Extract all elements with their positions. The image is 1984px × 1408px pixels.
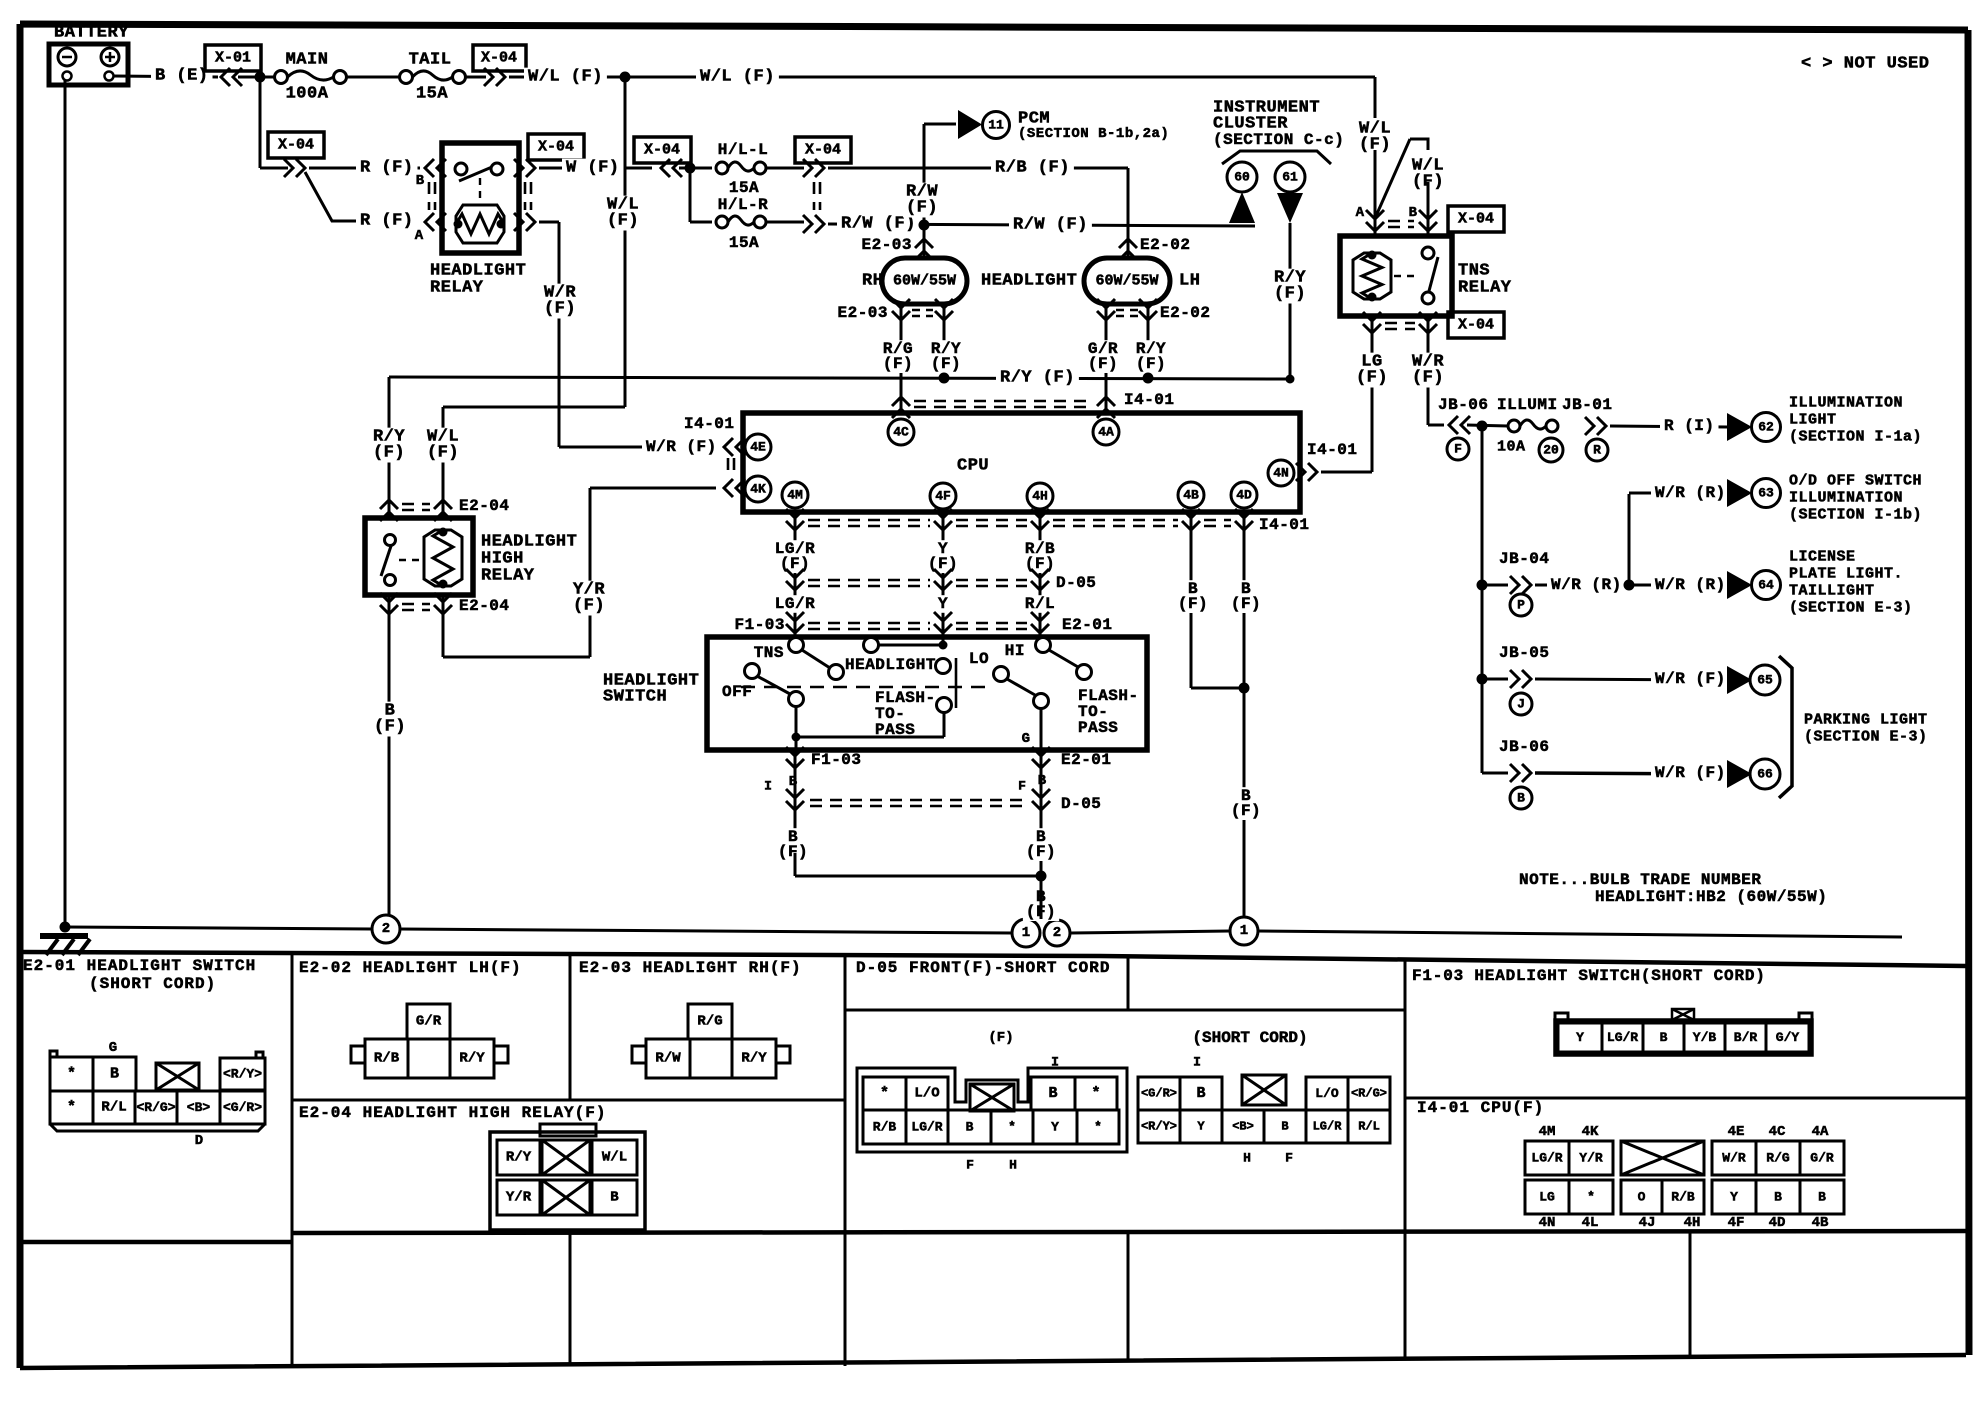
connector pinout E2-03 — [688, 1004, 732, 1039]
svg-text:F: F — [1454, 442, 1462, 457]
wire W/R(R) OD off switch — [1628, 494, 1631, 585]
svg-text:B: B — [416, 173, 425, 189]
connector pinout E2-04 high relay — [540, 1124, 596, 1136]
svg-text:B: B — [1196, 1085, 1205, 1102]
svg-text:CPU: CPU — [957, 457, 989, 476]
svg-text:(SHORT CORD): (SHORT CORD) — [89, 975, 216, 993]
svg-text:62: 62 — [1758, 420, 1774, 435]
wire R(I) to illumination light — [1610, 426, 1727, 427]
wire Y/R(F) high relay to CPU 4K — [442, 595, 445, 657]
table dividers — [292, 952, 1690, 1368]
connector JB-05 chevron — [1510, 670, 1531, 688]
cpu pin 4F — [930, 483, 956, 509]
wire battery ground vertical — [64, 80, 67, 927]
svg-text:I: I — [1193, 1055, 1201, 1070]
cpu pin 4E — [745, 434, 771, 460]
wire B(F) 4B chain — [1190, 533, 1193, 688]
high relay coil — [424, 530, 462, 586]
svg-text:Y/B: Y/B — [1693, 1030, 1717, 1045]
arrow 62 — [1727, 413, 1752, 441]
TNS relay switch — [1422, 247, 1434, 259]
svg-text:R/Y: R/Y — [741, 1051, 767, 1067]
svg-text:Y: Y — [1730, 1190, 1738, 1205]
junction headlight fuses node — [685, 163, 696, 174]
svg-text:4B: 4B — [1812, 1215, 1829, 1231]
junction letter P — [1510, 594, 1532, 616]
headlight LH bottom pins E2-02 — [1105, 304, 1108, 322]
svg-text:R (I): R (I) — [1664, 417, 1715, 435]
label X-04 — [795, 137, 851, 163]
wire R/G(F) RH low beam to CPU 4C — [900, 322, 903, 413]
connector E2-01 chevron below switch — [1040, 750, 1043, 775]
svg-text:(F): (F) — [988, 1030, 1013, 1046]
svg-text:R/L: R/L — [1025, 595, 1055, 613]
svg-text:TAILLIGHT: TAILLIGHT — [1789, 583, 1875, 600]
cpu pin 4N — [1268, 460, 1294, 486]
wire W/R(F) TNS to illumi node — [1427, 334, 1430, 425]
svg-text:1: 1 — [1240, 923, 1248, 939]
wire W/L(F) vertical drop at x625 — [624, 77, 627, 407]
svg-text:X-04: X-04 — [805, 142, 841, 159]
svg-text:JB-05: JB-05 — [1499, 644, 1550, 662]
svg-text:F1-03 HEADLIGHT SWITCH(SHORT C: F1-03 HEADLIGHT SWITCH(SHORT CORD) — [1412, 967, 1766, 985]
svg-text:15A: 15A — [729, 234, 759, 252]
svg-text:I4-01: I4-01 — [1259, 516, 1310, 534]
junction R/Y RH-bus — [939, 373, 950, 384]
svg-text:PLATE LIGHT.: PLATE LIGHT. — [1789, 566, 1903, 583]
connector link dashes fuse outs — [814, 182, 820, 210]
svg-text:15A: 15A — [416, 85, 448, 104]
svg-text:R/L: R/L — [1358, 1120, 1380, 1134]
svg-text:R/L: R/L — [101, 1100, 126, 1116]
cpu pin 4D — [1231, 482, 1257, 508]
cpu pin 4A — [1093, 419, 1119, 445]
high relay switch — [385, 535, 396, 546]
svg-text:HEADLIGHT: HEADLIGHT — [845, 656, 936, 674]
svg-text:R/Y: R/Y — [459, 1051, 485, 1067]
connector E2-04 chevrons below high relay — [380, 593, 398, 614]
junction 4B-4D — [1239, 683, 1250, 694]
svg-text:(SECTION I-1b): (SECTION I-1b) — [1789, 507, 1922, 524]
svg-text:(F): (F) — [1136, 355, 1166, 373]
svg-text:I4-01: I4-01 — [1124, 391, 1175, 409]
connector JB-04 chevron — [1510, 576, 1531, 594]
fuse ILLUMI 10A — [1508, 420, 1520, 432]
svg-text:(F): (F) — [1025, 555, 1055, 573]
svg-text:10A: 10A — [1497, 439, 1526, 456]
svg-text:63: 63 — [1758, 486, 1774, 501]
headlight relay coil — [456, 205, 504, 243]
wire W/L(F) branch to TNS B — [1410, 139, 1428, 150]
connector link dashes D-05 row — [808, 580, 930, 586]
svg-text:E2-03 HEADLIGHT RH(F): E2-03 HEADLIGHT RH(F) — [579, 959, 802, 977]
svg-text:4D: 4D — [1236, 488, 1252, 503]
svg-text:(F): (F) — [928, 555, 958, 573]
svg-text:W/R (R): W/R (R) — [1655, 484, 1726, 502]
svg-text:R/Y: R/Y — [506, 1150, 532, 1166]
svg-text:LO: LO — [969, 650, 989, 668]
svg-text:100A: 100A — [286, 85, 329, 104]
label X-01 — [205, 45, 261, 71]
svg-text:P: P — [1517, 598, 1525, 613]
arrow 61 (down) — [1277, 193, 1303, 223]
connector D-05 chevron 4F — [934, 569, 952, 590]
junction JB-04 — [1477, 580, 1488, 591]
svg-text:JB-06: JB-06 — [1438, 396, 1489, 414]
wire W(F) from relay — [539, 167, 652, 170]
arrow 65 — [1727, 666, 1752, 694]
svg-text:4E: 4E — [750, 440, 766, 455]
svg-text:F1-03: F1-03 — [734, 616, 785, 634]
svg-text:4J: 4J — [1639, 1215, 1656, 1231]
svg-text:(F): (F) — [778, 843, 808, 861]
svg-text:W/L (F): W/L (F) — [700, 68, 775, 87]
svg-text:(F): (F) — [1026, 843, 1056, 861]
svg-text:JB-04: JB-04 — [1499, 550, 1550, 568]
connector F1-03 chevron below switch — [794, 750, 797, 775]
svg-text:PASS: PASS — [1078, 719, 1118, 737]
svg-text:TAIL: TAIL — [409, 51, 452, 70]
svg-text:64: 64 — [1758, 578, 1774, 593]
wire JB-04 branch — [1482, 584, 1508, 587]
wire R/Y(F) LH to bus — [1147, 322, 1150, 379]
table frame — [20, 952, 1966, 1368]
circuit ref 65 — [1750, 665, 1780, 695]
ground point 1 (right) — [1230, 917, 1258, 945]
connector X-04 chevrons below TNS — [1371, 316, 1374, 334]
junction W/L node — [620, 72, 631, 83]
svg-text:4K: 4K — [750, 482, 766, 497]
fuse TAIL 15A — [400, 71, 413, 84]
wire from X-01 node down — [259, 77, 262, 168]
svg-text:LG: LG — [1539, 1190, 1555, 1205]
connector I4-01 chevron 4K — [724, 479, 745, 497]
svg-text:NOTE...BULB TRADE NUMBER: NOTE...BULB TRADE NUMBER — [1519, 871, 1761, 889]
connector JB-01 chevron out — [1585, 417, 1606, 435]
wire 4N to TNS relay LG — [1321, 471, 1372, 474]
circuit ref 63 — [1752, 479, 1781, 508]
svg-text:60: 60 — [1234, 170, 1250, 185]
svg-text:D-05: D-05 — [1061, 795, 1101, 813]
wire JB-06 branch — [1482, 772, 1508, 775]
svg-text:Y/R: Y/R — [506, 1190, 532, 1206]
svg-text:(SECTION C-c): (SECTION C-c) — [1213, 131, 1344, 149]
cpu pin 4M — [782, 482, 808, 508]
connector D-05 chevron 4M — [786, 569, 804, 590]
svg-text:D: D — [195, 1133, 203, 1149]
svg-text:H: H — [1009, 1158, 1017, 1173]
label X-04 TNS top — [1448, 206, 1504, 232]
connector chevrons relay outputs — [514, 159, 535, 177]
svg-text:I4-01: I4-01 — [1307, 441, 1358, 459]
svg-text:HI: HI — [1005, 642, 1025, 660]
svg-text:SWITCH: SWITCH — [603, 688, 667, 707]
svg-text:ILLUMINATION: ILLUMINATION — [1789, 490, 1903, 507]
svg-text:E2-01: E2-01 — [1061, 751, 1112, 769]
svg-text:(F): (F) — [544, 300, 576, 319]
svg-text:(SECTION E-3): (SECTION E-3) — [1804, 729, 1928, 746]
svg-text:E2-02: E2-02 — [1140, 236, 1191, 254]
svg-text:O: O — [1638, 1190, 1646, 1205]
wire W/L(F) top right corner — [1374, 77, 1377, 118]
svg-text:*: * — [67, 1099, 76, 1116]
svg-text:<B>: <B> — [187, 1100, 211, 1115]
headlight LH bulb 60W/55W — [1084, 258, 1170, 304]
svg-text:G/R: G/R — [416, 1014, 442, 1030]
parking light bracket — [1779, 656, 1792, 798]
cpu pin 4K — [745, 476, 771, 502]
arrow to PCM — [958, 110, 982, 139]
connector JB-06 chevron — [1510, 764, 1531, 782]
connector link dashes left of relay — [429, 182, 435, 210]
fuse rating ref 20 — [1539, 438, 1563, 462]
svg-text:E2-04: E2-04 — [459, 497, 510, 515]
svg-text:ILLUMINATION: ILLUMINATION — [1789, 395, 1903, 412]
arrow 63 — [1727, 479, 1752, 507]
label X-04 — [634, 137, 691, 163]
svg-text:R: R — [1593, 443, 1601, 458]
svg-text:R/B (F): R/B (F) — [995, 159, 1070, 178]
connector X-04 chevron TNS B — [1419, 210, 1437, 231]
headlight RH bottom pins E2-03 — [900, 304, 903, 322]
connector X-01 chevron — [221, 68, 242, 86]
svg-text:<B>: <B> — [1232, 1120, 1254, 1134]
svg-text:E2-01: E2-01 — [1062, 616, 1113, 634]
svg-text:Y: Y — [1197, 1120, 1205, 1134]
junction battery-ground bus — [60, 922, 71, 933]
svg-text:(F): (F) — [373, 444, 405, 463]
svg-text:E2-01 HEADLIGHT SWITCH: E2-01 HEADLIGHT SWITCH — [23, 957, 256, 975]
svg-text:A: A — [1356, 205, 1365, 221]
svg-text:4A: 4A — [1098, 425, 1114, 440]
svg-text:X-01: X-01 — [215, 50, 251, 67]
svg-text:(SECTION B-1b,2a): (SECTION B-1b,2a) — [1018, 126, 1169, 142]
svg-text:Y: Y — [938, 595, 948, 613]
svg-text:B: B — [1048, 1085, 1057, 1102]
connector chevron B into headlight relay — [425, 159, 446, 177]
wire R/B(F) to LH headlight — [828, 167, 1128, 170]
svg-text:G/Y: G/Y — [1776, 1030, 1800, 1045]
svg-text:Y: Y — [1051, 1120, 1059, 1135]
svg-text:JB-01: JB-01 — [1562, 396, 1613, 414]
svg-text:L/O: L/O — [1315, 1086, 1339, 1101]
svg-text:*: * — [1587, 1190, 1595, 1205]
svg-text:4D: 4D — [1769, 1215, 1786, 1231]
switch contact FLASH-TO-PASS left — [937, 698, 952, 713]
svg-text:W/R (F): W/R (F) — [1655, 764, 1726, 782]
connector X-04 chevron H/L-R out — [803, 215, 824, 233]
connector chevron A into headlight relay — [425, 213, 446, 231]
svg-text:20: 20 — [1543, 443, 1559, 458]
connector I4-01 chevrons top 4C 4A — [892, 397, 910, 418]
svg-text:LH: LH — [1179, 272, 1200, 291]
svg-text:R/B: R/B — [873, 1120, 897, 1135]
headlight LH top connector E2-02 — [1119, 239, 1137, 260]
ground point 1 (mid) — [1012, 919, 1040, 947]
svg-text:I4-01 CPU(F): I4-01 CPU(F) — [1417, 1099, 1544, 1117]
svg-text:<R/Y>: <R/Y> — [1141, 1120, 1177, 1134]
svg-text:LG/R: LG/R — [775, 595, 815, 613]
svg-text:R (F): R (F) — [360, 159, 414, 178]
svg-text:B: B — [610, 1190, 619, 1206]
label X-04 TNS bottom — [1448, 312, 1504, 338]
wire R/W(F) vertical to PCM — [923, 124, 926, 225]
label X-04 — [473, 45, 526, 71]
svg-text:60W/55W: 60W/55W — [893, 273, 956, 290]
svg-text:H/L-R: H/L-R — [718, 196, 769, 214]
svg-text:B: B — [1774, 1190, 1782, 1205]
junction letter J — [1510, 693, 1532, 715]
wire JB-05 branch — [1482, 678, 1508, 681]
svg-text:(F): (F) — [1356, 369, 1388, 388]
svg-text:4E: 4E — [1728, 1124, 1745, 1140]
svg-text:4H: 4H — [1684, 1215, 1701, 1231]
wire W/L jog to high relay — [443, 406, 625, 409]
wire Y(F) 4F chain — [942, 533, 945, 645]
svg-text:LG/R: LG/R — [1607, 1030, 1638, 1045]
svg-text:W/R (F): W/R (F) — [1655, 670, 1726, 688]
wire B(E) from battery — [113, 76, 218, 77]
svg-text:65: 65 — [1757, 673, 1773, 688]
svg-text:G: G — [109, 1040, 117, 1056]
connector JB-06 chevron in — [1449, 416, 1470, 434]
svg-text:H: H — [1243, 1151, 1251, 1166]
circuit ref 60 — [1227, 162, 1257, 192]
wire B(F) to ground 1-2 — [1023, 888, 1059, 921]
svg-text:4A: 4A — [1812, 1124, 1829, 1140]
svg-text:(F): (F) — [906, 199, 938, 218]
switch contact OFF — [745, 664, 760, 679]
svg-text:O/D OFF SWITCH: O/D OFF SWITCH — [1789, 473, 1922, 490]
svg-text:Y/R: Y/R — [1579, 1151, 1603, 1166]
svg-text:X-04: X-04 — [538, 139, 574, 156]
wire R/Y(F) bus — [389, 377, 1290, 379]
svg-text:W (F): W (F) — [566, 159, 620, 178]
svg-text:HEADLIGHT: HEADLIGHT — [981, 272, 1077, 291]
svg-text:4N: 4N — [1273, 466, 1289, 481]
svg-text:(SECTION E-3): (SECTION E-3) — [1789, 600, 1913, 617]
svg-text:ILLUMI: ILLUMI — [1497, 396, 1558, 414]
arrow 66 — [1727, 760, 1752, 788]
instrument cluster bracket — [1222, 151, 1331, 164]
junction main fuse node — [255, 72, 266, 83]
wire H/L-R out — [766, 221, 804, 224]
connector F1-03 chevron 4F — [934, 612, 952, 633]
connector D-05 chevrons ground wires — [794, 775, 797, 853]
svg-text:E2-02: E2-02 — [1160, 304, 1211, 322]
svg-text:<G/R>: <G/R> — [223, 1100, 262, 1115]
junction R/Y LH-bus — [1143, 373, 1154, 384]
wire W/R(F) from relay down to 4E — [539, 221, 559, 224]
junction relay coil A side — [454, 220, 463, 229]
ground point 2 (mid) — [1044, 920, 1070, 946]
wire G/R(F) LH to CPU 4A — [1105, 322, 1108, 413]
svg-text:RH: RH — [862, 272, 883, 291]
svg-text:(F): (F) — [374, 718, 406, 737]
svg-text:X-04: X-04 — [644, 142, 680, 159]
headlight switch box — [707, 637, 1147, 750]
switch contact LO — [994, 667, 1009, 682]
fuse H/L-L 15A — [716, 162, 728, 174]
svg-text:J: J — [1517, 697, 1525, 712]
headlight high relay box — [365, 518, 473, 595]
svg-text:4K: 4K — [1582, 1124, 1599, 1140]
connector E2-04 chevrons above high relay — [380, 500, 398, 521]
svg-text:B/R: B/R — [1734, 1030, 1758, 1045]
svg-text:X-04: X-04 — [481, 50, 517, 67]
circuit ref 64 — [1752, 571, 1781, 600]
svg-text:R/B: R/B — [374, 1051, 400, 1067]
svg-text:W/L (F): W/L (F) — [528, 68, 603, 87]
junction R/Y bus corner — [1286, 375, 1295, 384]
svg-text:(F): (F) — [607, 212, 639, 231]
svg-text:4B: 4B — [1183, 488, 1199, 503]
connector pinout F1-03 — [1672, 1009, 1694, 1020]
svg-text:F: F — [1285, 1151, 1293, 1166]
arrow 64 — [1727, 571, 1752, 599]
svg-text:(F): (F) — [1274, 285, 1306, 304]
junction letter R — [1586, 439, 1608, 461]
svg-text:E2-04: E2-04 — [459, 597, 510, 615]
svg-text:W/L: W/L — [602, 1150, 627, 1166]
svg-text:R/G: R/G — [697, 1014, 722, 1030]
svg-text:(F): (F) — [1088, 355, 1118, 373]
svg-text:LG/R: LG/R — [911, 1120, 942, 1135]
svg-text:B (E): B (E) — [155, 67, 209, 86]
connector E2-01 chevron 4H — [1031, 612, 1049, 633]
svg-text:G: G — [1022, 731, 1030, 747]
svg-text:4M: 4M — [787, 488, 803, 503]
junction switch ground merge — [1036, 871, 1047, 882]
svg-text:B: B — [1409, 205, 1418, 221]
svg-text:4C: 4C — [893, 425, 909, 440]
svg-text:E2-04 HEADLIGHT HIGH RELAY(F): E2-04 HEADLIGHT HIGH RELAY(F) — [299, 1104, 606, 1122]
connector pinout E2-02 — [407, 1004, 450, 1039]
junction letter B — [1510, 787, 1532, 809]
svg-text:PARKING LIGHT: PARKING LIGHT — [1804, 712, 1928, 729]
connector F1-03 chevron 4M — [786, 612, 804, 633]
junction letter F — [1447, 438, 1469, 460]
svg-text:R (F): R (F) — [360, 212, 414, 231]
wire B(F) switch grounds merge — [775, 828, 811, 861]
label X-04 relay out — [528, 134, 584, 160]
connector I4-01 chevrons bottom row — [794, 512, 797, 533]
svg-text:H/L-L: H/L-L — [718, 141, 769, 159]
svg-text:*: * — [1008, 1120, 1016, 1135]
svg-text:1: 1 — [1022, 925, 1030, 941]
svg-text:2: 2 — [382, 921, 390, 937]
connector X-04 chevron W(F) — [661, 159, 682, 177]
svg-text:(F): (F) — [1178, 595, 1208, 613]
svg-text:I4-01: I4-01 — [684, 415, 735, 433]
junction relay coil out side — [497, 220, 506, 229]
svg-text:B: B — [1281, 1120, 1288, 1134]
svg-text:G/R: G/R — [1810, 1151, 1834, 1166]
svg-text:E2-03: E2-03 — [837, 304, 888, 322]
ground bus wire — [65, 927, 372, 929]
svg-text:<R/G>: <R/G> — [1351, 1087, 1387, 1101]
wire LG/R(F) 4M chain — [794, 533, 797, 637]
svg-text:(F): (F) — [1231, 595, 1261, 613]
svg-text:(SECTION I-1a): (SECTION I-1a) — [1789, 429, 1922, 446]
svg-text:4F: 4F — [935, 489, 951, 504]
svg-text:RELAY: RELAY — [430, 279, 484, 298]
svg-text:F: F — [966, 1158, 974, 1173]
svg-text:X-04: X-04 — [278, 137, 314, 154]
junction R/W to PCM — [919, 220, 930, 231]
CPU box — [743, 413, 1300, 512]
svg-text:JB-06: JB-06 — [1499, 738, 1550, 756]
